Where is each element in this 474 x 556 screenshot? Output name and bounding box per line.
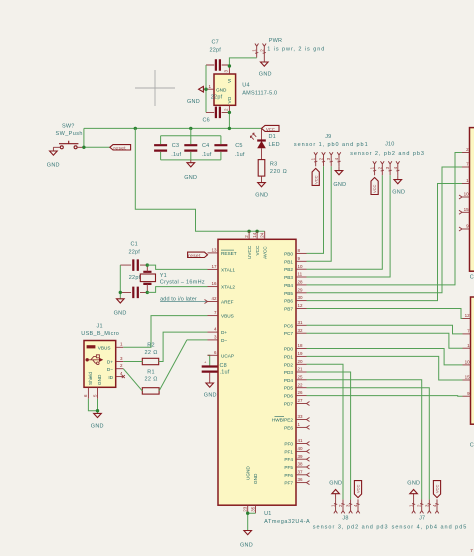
svg-text:26: 26: [298, 390, 304, 395]
svg-text:.1uf: .1uf: [235, 152, 245, 158]
U1 pin 1 PE6: [284, 422, 309, 430]
ground below R3: [255, 176, 268, 198]
svg-text:U1: U1: [264, 511, 271, 517]
U1 pin 42 AREF: [205, 296, 234, 304]
ground below C1/C2: [114, 299, 127, 317]
svg-text:31: 31: [298, 320, 304, 325]
svg-text:42: 42: [211, 296, 217, 301]
svg-text:GND: GND: [333, 182, 346, 188]
svg-text:C: C: [470, 443, 474, 449]
svg-text:J7: J7: [419, 516, 425, 522]
svg-text:29: 29: [298, 287, 304, 292]
svg-text:sensor 3, pd2 and pd3: sensor 3, pd2 and pd3: [313, 524, 389, 530]
wire U4 VO node down to +5V rail: [228, 112, 230, 128]
ground at J9 pin4: [333, 166, 346, 188]
svg-text:RESET: RESET: [221, 251, 237, 256]
svg-text:24: 24: [260, 232, 265, 238]
svg-text:.1uf: .1uf: [202, 152, 212, 158]
J9 pin 1: [311, 152, 318, 166]
ground at PWR pin 2: [259, 58, 272, 78]
svg-text:C5: C5: [235, 143, 242, 149]
svg-text:AVCC: AVCC: [262, 246, 267, 259]
capacitor C2 (22pf): [120, 275, 147, 298]
bottom-right connector pin 9: [463, 391, 471, 396]
wire PB5 to top-right pin 7: [307, 167, 463, 293]
U1 pin 20 PD2: [284, 359, 307, 367]
connector J1 USB_B_Micro: [81, 323, 119, 387]
svg-text:37: 37: [298, 469, 304, 474]
svg-text:UCAP: UCAP: [221, 353, 234, 358]
connector J7: [392, 516, 468, 531]
U4 pin 2 VO (bottom): [224, 96, 233, 112]
svg-text:C4: C4: [202, 143, 209, 149]
svg-text:AREF: AREF: [221, 300, 234, 305]
svg-text:D+: D+: [107, 360, 113, 365]
svg-text:PD4: PD4: [284, 378, 294, 383]
svg-text:VBUS: VBUS: [221, 314, 234, 319]
connector (cut off, top right): [470, 128, 474, 272]
wire +5V rail: [84, 127, 262, 129]
wire U4 VI node to PWR: [229, 58, 256, 66]
C8 labels: [220, 363, 230, 376]
svg-text:39: 39: [298, 454, 304, 459]
svg-text:GND: GND: [216, 87, 227, 92]
svg-text:C: C: [470, 275, 474, 281]
PWR pin 1: [252, 44, 259, 58]
svg-text:C7: C7: [212, 40, 219, 46]
J8 pin 2: [338, 499, 345, 513]
wire J1 D- through R1 to MCU D-: [123, 340, 207, 391]
svg-text:25: 25: [298, 374, 304, 379]
svg-text:28: 28: [298, 280, 304, 285]
svg-text:PWR: PWR: [269, 38, 282, 44]
J7 pin 3: [424, 499, 431, 513]
svg-text:D1: D1: [269, 134, 276, 140]
J1 pin 6 Shield (bottom): [83, 372, 93, 399]
wire cap bank bracket: [161, 128, 221, 160]
J10 pin 3: [385, 161, 392, 175]
MCU U1 ATmega32U4-A body: [218, 239, 310, 525]
label C (cut, lower): [470, 443, 474, 449]
top-right connector pin 10: [459, 192, 470, 199]
junction C6/VO node: [228, 111, 231, 114]
J10 pin 2: [377, 161, 384, 175]
svg-text:PD0: PD0: [284, 347, 294, 352]
svg-text:PB6: PB6: [284, 299, 293, 304]
global label reset (at switch): [110, 145, 131, 151]
svg-text:36: 36: [298, 477, 304, 482]
ground below J1: [91, 413, 104, 429]
svg-text:J1: J1: [97, 323, 103, 329]
C6 value label 22pf (overlapping U4 body): [211, 95, 223, 101]
svg-text:PD3: PD3: [284, 370, 294, 375]
wire PC7 to bottom-right pin 1: [307, 333, 463, 348]
svg-text:PF7: PF7: [284, 481, 293, 486]
svg-text:GND: GND: [187, 99, 200, 105]
wire J10 pin2 to PB2: [307, 175, 383, 269]
svg-text:VCC: VCC: [255, 245, 260, 256]
wire J1 VBUS to MCU VBUS: [123, 316, 207, 348]
junction C7/VI node: [228, 64, 231, 67]
bottom-right connector pin 7: [463, 329, 471, 334]
U4 pin 1 GND (left): [206, 84, 227, 92]
svg-text:21: 21: [298, 367, 304, 372]
svg-text:PF5: PF5: [284, 465, 293, 470]
U1 pin 8 PB0: [284, 248, 306, 256]
power flag VCC on rail: [262, 125, 280, 131]
bottom-right connector pin 1: [463, 343, 471, 348]
svg-text:PB3: PB3: [284, 275, 293, 280]
svg-text:PB0: PB0: [284, 251, 293, 256]
svg-text:PB1: PB1: [284, 259, 293, 264]
junction caps left: [119, 291, 122, 294]
switch SW? SW_Push: [53, 123, 84, 149]
LED D1: [250, 128, 279, 148]
svg-text:VBUS: VBUS: [98, 345, 111, 350]
U1 pin 17 XTAL1: [208, 264, 236, 272]
svg-text:J9: J9: [325, 134, 331, 140]
U1 pin 6 UCAP: [208, 350, 235, 358]
svg-text:PB2: PB2: [284, 267, 293, 272]
wire PB6 to top-right pin 1: [307, 184, 463, 301]
svg-text:GND: GND: [184, 175, 197, 181]
svg-text:14: 14: [252, 232, 257, 238]
svg-text:VO: VO: [227, 96, 232, 103]
connector J9: [294, 134, 369, 148]
label C (cut): [470, 275, 474, 281]
svg-text:.1uf: .1uf: [171, 152, 181, 158]
wire PC6 to bottom-right pin 7: [307, 325, 463, 334]
power VCC at J10 pin1: [371, 178, 378, 195]
capacitor C8 .1uf on UCAP: [202, 355, 218, 383]
svg-text:sensor 2, pb2 and pb3: sensor 2, pb2 and pb3: [350, 151, 425, 157]
svg-text:PD7: PD7: [284, 402, 294, 407]
global label reset (at MCU RESET pin): [188, 252, 208, 258]
wire J1 D+ through R2 to MCU D+: [123, 332, 207, 361]
power VCC at J7 pin4: [433, 481, 440, 498]
svg-text:GND: GND: [259, 72, 272, 78]
capacitor C7: [206, 40, 229, 71]
wire crystal to XTAL2: [147, 287, 207, 293]
svg-text:UVCC: UVCC: [247, 245, 252, 259]
svg-text:PF6: PF6: [284, 473, 293, 478]
wire J8 pin2 to PD2: [307, 364, 344, 499]
svg-text:XTAL1: XTAL1: [221, 267, 235, 272]
capacitor C1: [120, 241, 147, 271]
svg-text:C1: C1: [131, 241, 138, 247]
crystal Y1 16MHz: [140, 265, 205, 292]
J8 pin 3: [346, 499, 353, 513]
U1 ground pins UGND/GND (bottom): [243, 466, 259, 514]
ground below U1: [240, 531, 253, 549]
J8 pin 1: [331, 499, 338, 513]
junction rail/C4: [189, 127, 192, 130]
U1 pin 22 PD5: [284, 382, 307, 390]
J1 pin 4 ID (no connect): [108, 371, 124, 380]
U1 pin 36 PF7: [284, 477, 309, 485]
svg-text:VCC: VCC: [435, 485, 440, 494]
U1 pin 40 PF1: [284, 446, 309, 454]
svg-text:23: 23: [243, 506, 248, 512]
svg-text:18: 18: [298, 343, 304, 348]
svg-text:27: 27: [298, 398, 304, 403]
svg-text:38: 38: [298, 462, 304, 467]
connector J10: [350, 141, 425, 157]
svg-text:sensor 1, pb0 and pb1: sensor 1, pb0 and pb1: [294, 142, 369, 148]
svg-text:PF4: PF4: [284, 457, 293, 462]
svg-text:VCC: VCC: [266, 127, 275, 132]
J7 pin 2: [417, 499, 424, 513]
svg-text:VCC: VCC: [372, 184, 377, 193]
svg-text:22 Ω: 22 Ω: [145, 377, 158, 383]
junction rail/MCU-power drop: [134, 127, 137, 130]
svg-text:PD5: PD5: [284, 386, 294, 391]
svg-text:PD2: PD2: [284, 362, 294, 367]
svg-text:PF0: PF0: [284, 442, 293, 447]
J1 pin 3 D+: [107, 356, 123, 365]
J10 pin 4: [393, 161, 400, 175]
U1 power pins UVCC/VCC/AVCC (top): [244, 231, 268, 259]
svg-text:J10: J10: [385, 141, 394, 147]
svg-text:VI: VI: [227, 79, 232, 83]
svg-text:13: 13: [211, 248, 217, 253]
capacitor C4: [184, 143, 211, 158]
U1 pin 12 PB7: [284, 303, 306, 311]
svg-text:19: 19: [298, 351, 304, 356]
svg-text:R1: R1: [147, 369, 154, 375]
svg-text:C6: C6: [203, 118, 210, 124]
U1 pin 29 PB5: [284, 287, 306, 295]
svg-text:10: 10: [298, 264, 304, 269]
wire rail to MCU power pins: [135, 128, 264, 231]
svg-text:D−: D−: [221, 338, 227, 343]
U4 pin 3 VI (top): [224, 66, 233, 83]
junction SW node: [82, 146, 85, 149]
U1 pin 7 VBUS: [208, 310, 234, 318]
svg-text:15: 15: [464, 207, 470, 212]
svg-text:35: 35: [250, 506, 255, 512]
U1 pin 37 PF6: [284, 469, 309, 477]
wire PD1 to bottom-right pin 15: [307, 356, 463, 380]
voltage regulator U4 AMS1117-5.0: [214, 74, 277, 105]
svg-text:U4: U4: [242, 83, 249, 89]
PWR pin 2: [259, 44, 266, 58]
J7 pin 4: [432, 499, 439, 513]
junction U1 gnd: [246, 512, 249, 515]
svg-text:D+: D+: [221, 330, 227, 335]
svg-text:GND: GND: [329, 480, 342, 486]
top-right connector pin 1: [462, 178, 470, 183]
svg-text:VCC: VCC: [313, 175, 318, 184]
svg-text:17: 17: [211, 264, 217, 269]
connector (cut off, bottom right): [471, 297, 474, 424]
svg-text:PC6: PC6: [284, 323, 294, 328]
svg-text:D−: D−: [107, 367, 113, 372]
top-right connector pin 15: [459, 207, 470, 214]
svg-text:GND: GND: [253, 473, 258, 484]
ground at J8 pin1: [329, 480, 342, 499]
svg-text:11: 11: [298, 272, 303, 277]
svg-text:GND: GND: [240, 543, 253, 549]
svg-text:Y1: Y1: [160, 273, 167, 279]
junction VCC: [255, 230, 258, 233]
ground symbol left of U4: [187, 86, 206, 105]
U1 pin 28 PB4: [284, 280, 306, 288]
svg-text:PB5: PB5: [284, 291, 293, 296]
svg-text:reset: reset: [188, 253, 201, 258]
svg-text:22pf: 22pf: [210, 48, 222, 54]
svg-text:ID: ID: [108, 375, 113, 380]
svg-text:GND: GND: [97, 374, 102, 385]
U1 pin 11 PB3: [284, 272, 306, 280]
svg-text:PE6: PE6: [284, 425, 293, 430]
svg-text:PB7: PB7: [284, 307, 293, 312]
svg-text:40: 40: [298, 446, 304, 451]
J1 pin 5 GND (bottom): [92, 374, 102, 399]
svg-text:32: 32: [298, 328, 304, 333]
wire J8 pin3 to PD3: [307, 372, 351, 499]
wire C7/C6 left loop to U4 pin1: [205, 65, 207, 112]
wire crystal to XTAL1: [147, 265, 207, 269]
resistor R3 220 ohm: [258, 148, 287, 176]
svg-text:GND: GND: [392, 190, 405, 196]
junction J1 gnd: [96, 409, 99, 412]
svg-text:Crystal – 16mHz: Crystal – 16mHz: [160, 279, 205, 285]
ground at J10 pin4: [392, 175, 405, 195]
junction rail/U4 output: [228, 127, 231, 130]
svg-text:GND: GND: [47, 163, 60, 169]
svg-text:R3: R3: [270, 161, 277, 167]
U1 pin 27 PD7: [284, 398, 310, 406]
svg-text:VCC: VCC: [356, 485, 361, 494]
wire J10 pin3 to PB3: [307, 175, 391, 277]
J9 pin 4: [334, 152, 341, 166]
svg-text:1 is pwr, 2 is gnd: 1 is pwr, 2 is gnd: [267, 46, 325, 52]
svg-text:10: 10: [465, 360, 471, 365]
U1 pin 26 PD6: [284, 390, 307, 398]
svg-text:220 Ω: 220 Ω: [270, 169, 287, 175]
svg-text:AMS1117-5.0: AMS1117-5.0: [242, 91, 277, 97]
wire J1 shield+gnd join: [88, 399, 97, 414]
U1 pin 30 PB6: [284, 295, 306, 303]
svg-text:SW?: SW?: [62, 123, 75, 129]
svg-text:PC7: PC7: [284, 331, 294, 336]
svg-text:HWB/PE2: HWB/PE2: [272, 418, 293, 423]
capacitor C6: [203, 107, 230, 124]
capacitor C5: [214, 143, 245, 158]
svg-text:PB4: PB4: [284, 283, 293, 288]
svg-text:22 Ω: 22 Ω: [145, 350, 158, 356]
U1 pin 38 PF5: [284, 462, 309, 470]
svg-text:12: 12: [465, 313, 471, 318]
svg-text:22pf: 22pf: [211, 95, 223, 101]
ground at SW: [47, 147, 60, 168]
J7 pin 1: [409, 499, 416, 513]
note add to i/o later: [160, 296, 207, 302]
J10 pin 1: [370, 161, 377, 175]
wire J9 pin2 to PB0: [307, 166, 324, 253]
J8 pin 4: [353, 499, 360, 513]
svg-text:sensor 4, pb4 and pd5: sensor 4, pb4 and pd5: [392, 524, 468, 530]
svg-text:33: 33: [298, 414, 304, 419]
bottom-right connector pin 10: [463, 360, 471, 365]
svg-text:USB_B_Micro: USB_B_Micro: [81, 331, 119, 337]
resistor R2 22 ohm: [142, 343, 158, 365]
svg-text:30: 30: [298, 295, 304, 300]
capacitor C3: [154, 143, 181, 158]
svg-text:GND: GND: [91, 423, 104, 429]
connector PWR: [267, 38, 325, 52]
USB VBUS bar icon: [87, 345, 96, 348]
svg-text:12: 12: [298, 303, 304, 308]
svg-text:UGND: UGND: [245, 466, 250, 480]
resistor R1 22 ohm: [142, 369, 159, 394]
U1 pin 31 PC6: [284, 320, 307, 328]
U1 pin 21 PD3: [284, 367, 307, 375]
wire PD0 to bottom-right pin 10: [307, 349, 463, 365]
svg-text:Shield: Shield: [88, 372, 93, 385]
svg-text:41: 41: [298, 438, 304, 443]
label (cut, bottom right corner): [470, 548, 473, 553]
U1 pin 9 PB1: [284, 256, 306, 264]
U1 pin 16 XTAL2: [208, 281, 236, 289]
wire PB7 to bottom-right pin 12: [307, 309, 463, 319]
wire PB4 to top-right pin 2: [307, 153, 463, 285]
svg-text:ATmega32U4-A: ATmega32U4-A: [264, 519, 310, 525]
wire J7 pin2 to PD4: [307, 380, 422, 500]
U1 pin 39 PF4: [284, 454, 309, 462]
svg-text:GND: GND: [255, 192, 268, 198]
bottom-right connector pin 12: [463, 313, 471, 318]
wire U1 gnd join: [248, 513, 256, 530]
top-right connector pin 2: [462, 147, 470, 152]
svg-text:J8: J8: [342, 516, 348, 522]
svg-text:C3: C3: [172, 143, 179, 149]
junction crystal bottom: [146, 291, 149, 294]
wire PD6 to bottom-right pin 9: [307, 395, 463, 398]
svg-text:LED: LED: [269, 142, 280, 148]
U1 pin 33 HWB/PE2: [272, 414, 310, 422]
top-right connector pin 7: [462, 162, 470, 167]
bottom-right connector pin 15: [463, 375, 471, 380]
svg-text:PF1: PF1: [284, 449, 293, 454]
U1 pin 10 PB2: [284, 264, 306, 272]
U1 pin 25 PD4: [284, 374, 307, 382]
U1 pin 32 PC7: [284, 328, 307, 336]
svg-text:GND: GND: [204, 393, 217, 399]
svg-text:GND: GND: [114, 311, 127, 317]
svg-text:22: 22: [298, 382, 304, 387]
wire J7 pin3 to PD5: [307, 388, 430, 500]
U1 pin 18 PD0: [284, 343, 307, 351]
svg-text:10: 10: [464, 192, 470, 197]
svg-text:R2: R2: [147, 343, 154, 349]
top-right connector pin 9: [459, 224, 470, 231]
U1 pin 13 RESET: [208, 248, 237, 256]
wire J9 pin3 to PB1: [307, 166, 332, 261]
svg-text:16: 16: [211, 281, 217, 286]
svg-text:PD6: PD6: [284, 394, 294, 399]
svg-text:PD1: PD1: [284, 354, 294, 359]
wire SW to rail and reset label: [84, 128, 110, 147]
junction crystal top: [146, 263, 149, 266]
U1 pin 41 PF0: [284, 438, 309, 446]
svg-text:GND: GND: [407, 480, 420, 486]
ground below C8: [204, 383, 217, 399]
connector J8: [313, 516, 389, 531]
svg-text:C8: C8: [220, 363, 227, 369]
junction UVCC: [247, 230, 250, 233]
